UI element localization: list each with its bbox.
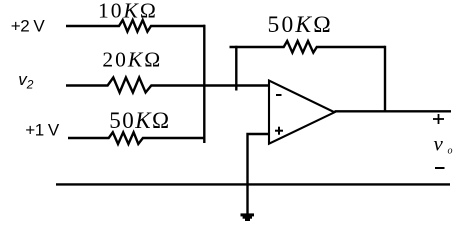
svg-text:50KΩ: 50KΩ — [268, 12, 333, 38]
op-amp non-inverting input plus sign — [275, 127, 283, 135]
svg-text:v2: v2 — [18, 70, 34, 92]
wire feedback right vertical down to output — [384, 46, 386, 112]
resistor R1 with wire line1 — [66, 20, 205, 32]
resistor R3 with wire line3 — [68, 132, 205, 144]
wire output — [335, 110, 452, 112]
ground symbol — [241, 213, 255, 221]
svg-text:o: o — [448, 146, 453, 157]
svg-text:20KΩ: 20KΩ — [102, 48, 162, 72]
wire feedback tap vertical at node A — [235, 46, 237, 91]
svg-text:+1 V: +1 V — [25, 121, 60, 140]
svg-text:10KΩ: 10KΩ — [98, 0, 158, 23]
wire bottom rail — [56, 183, 450, 185]
output minus terminal sign — [435, 167, 445, 169]
resistor R2 with wire line2 to op-amp inverting input — [66, 78, 269, 93]
op-amp inverting input minus sign — [276, 94, 282, 96]
op-amp U1 triangle — [269, 81, 335, 144]
output plus terminal sign — [433, 114, 444, 124]
wire vertical bus joining inputs — [203, 25, 205, 143]
svg-text:v: v — [434, 132, 444, 156]
wire non-inverting input to ground vertical — [248, 134, 270, 214]
svg-text:50KΩ: 50KΩ — [109, 108, 170, 133]
resistor Rf feedback with wire — [230, 41, 386, 53]
svg-text:+2 V: +2 V — [11, 17, 46, 36]
